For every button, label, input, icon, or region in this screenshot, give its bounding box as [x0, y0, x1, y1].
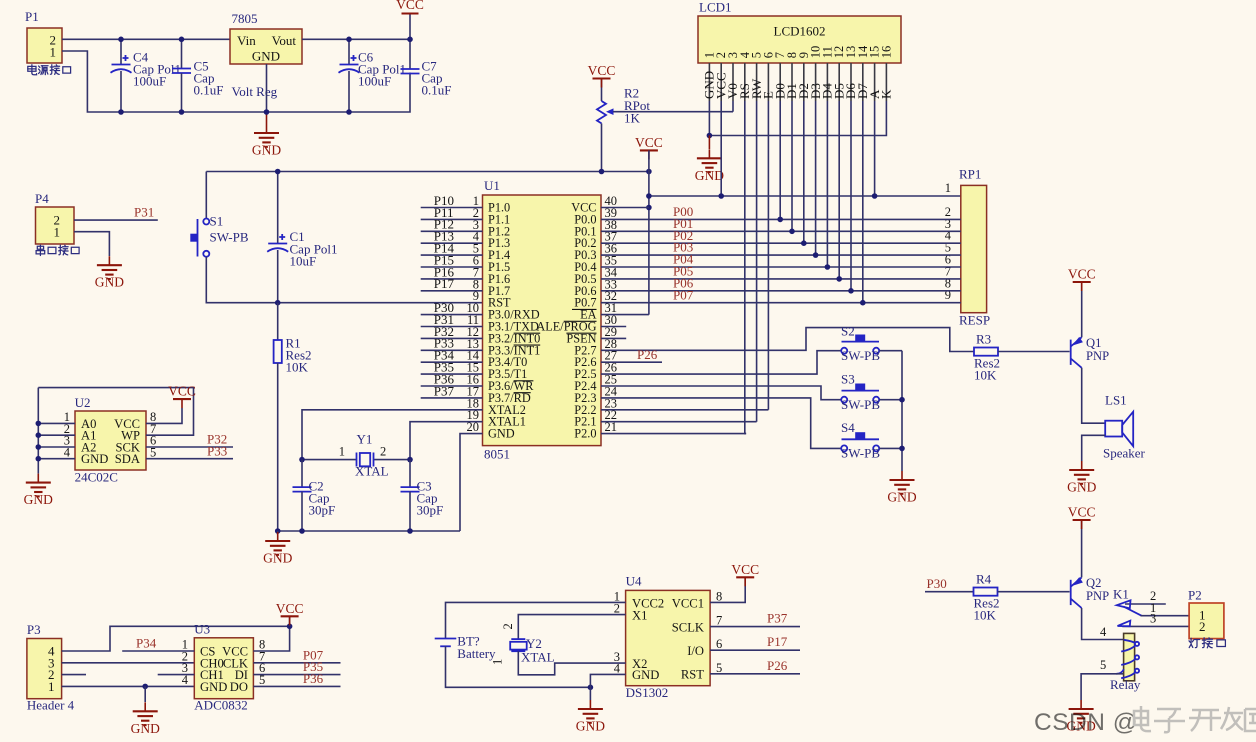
svg-text:10K: 10K — [974, 608, 997, 623]
connector P2 灯接口 — [1188, 588, 1224, 639]
MCU U1 8051 — [483, 178, 602, 462]
watermark CSDN — [1034, 706, 1256, 736]
ground under 7805 — [266, 112, 268, 124]
svg-text:SW-PB: SW-PB — [841, 397, 880, 412]
svg-text:RST: RST — [681, 668, 704, 682]
wire LCD GND pin1 and K pin16 — [709, 101, 886, 136]
wire P3 pin2 stub — [62, 674, 86, 676]
svg-text:2: 2 — [380, 445, 386, 459]
junction — [346, 109, 352, 115]
junction — [899, 397, 905, 403]
svg-text:7: 7 — [716, 614, 722, 628]
wire P4 pin1 to ground — [74, 232, 109, 256]
ground under P3 wire — [144, 686, 146, 702]
U1 right pin names — [536, 201, 596, 441]
P1 label 电源接口 (hand-drawn CJK) — [28, 65, 71, 75]
capacitor C7 — [401, 39, 452, 97]
junction — [899, 446, 905, 452]
svg-text:16: 16 — [879, 46, 893, 59]
junction — [789, 229, 795, 235]
wire LCD E pin6 to U1 P2.2 — [767, 101, 769, 410]
svg-text:0.1uF: 0.1uF — [194, 83, 224, 98]
ground under crystal rail — [277, 531, 279, 535]
svg-text:GND: GND — [632, 668, 659, 682]
wire S1 branch left — [205, 172, 207, 219]
junction — [264, 109, 270, 115]
svg-text:RP1: RP1 — [959, 167, 981, 182]
capacitor C5 — [172, 39, 223, 112]
ground under speaker — [1067, 461, 1096, 495]
svg-text:Y1: Y1 — [357, 432, 373, 447]
wire S4 right to bus — [879, 447, 902, 449]
svg-text:Relay: Relay — [1110, 677, 1141, 692]
RTC U4 DS1302 — [626, 574, 711, 700]
svg-text:30pF: 30pF — [417, 503, 444, 518]
wire LCD V0 pin3 to R2 — [732, 101, 734, 112]
power VCC above R2 — [588, 63, 616, 88]
resistor R4 Res2 — [974, 572, 1000, 623]
svg-text:10uF: 10uF — [290, 254, 317, 269]
crystal Y1 XTAL — [302, 432, 410, 479]
relay coil K1 — [1100, 625, 1141, 692]
svg-text:P2.0: P2.0 — [574, 427, 596, 441]
ground under P4 — [95, 256, 124, 290]
junction — [588, 685, 594, 691]
capacitor C2 — [293, 460, 336, 531]
junction — [36, 456, 42, 462]
U1 right pin numbers — [605, 194, 618, 434]
svg-text:Volt Reg: Volt Reg — [232, 84, 278, 99]
wire S1 bottom to RST rail — [206, 257, 482, 303]
wire Q1 collector to speaker — [1082, 368, 1106, 423]
svg-text:SW-PB: SW-PB — [841, 446, 880, 461]
wire switch bus down — [901, 351, 903, 471]
wire top rail y171.5 — [206, 171, 649, 173]
junction rail to VCC stem — [646, 169, 652, 175]
svg-text:CSDN @: CSDN @ — [1034, 709, 1138, 736]
resistor R3 Res2 — [974, 332, 1000, 383]
svg-text:P36: P36 — [303, 671, 324, 686]
svg-text:Vout: Vout — [272, 33, 297, 48]
junction dots data bus diagonal — [777, 217, 783, 223]
wire 7805 Vout — [302, 38, 410, 40]
svg-text:K: K — [879, 89, 894, 99]
svg-text:VCC: VCC — [396, 0, 424, 12]
U1 left pin names — [488, 201, 540, 441]
svg-text:DS1302: DS1302 — [626, 685, 669, 700]
junction — [407, 37, 413, 43]
wire R4 to Q2 base — [998, 591, 1070, 593]
svg-text:Header 4: Header 4 — [27, 698, 75, 713]
svg-text:1: 1 — [54, 224, 61, 239]
capacitor C3 — [401, 460, 444, 531]
svg-text:5: 5 — [716, 661, 722, 675]
svg-text:30pF: 30pF — [309, 503, 336, 518]
switch S2 SW-PB — [841, 324, 880, 363]
connector P1 电源接口 — [25, 9, 62, 63]
ground under U4 — [589, 687, 591, 700]
junction — [646, 205, 652, 211]
wire U1 P2.4 pin25 to S3 — [601, 386, 841, 400]
wire LCD RW pin5 to U1 P2.1 — [756, 101, 758, 422]
ground under relay — [1066, 700, 1095, 734]
svg-text:2: 2 — [501, 623, 515, 629]
connector P4 串口接口 — [35, 191, 74, 244]
RP1 pin numbers — [945, 181, 952, 302]
svg-text:1: 1 — [945, 181, 951, 195]
U1 left pin numbers — [467, 194, 480, 434]
svg-text:Vin: Vin — [237, 33, 256, 48]
svg-text:VCC1: VCC1 — [672, 596, 704, 610]
ground under U2 bus — [24, 474, 53, 508]
wire U2 SDA net P33 — [146, 458, 233, 460]
capacitor C6 — [339, 39, 407, 112]
svg-text:5: 5 — [1100, 658, 1106, 672]
svg-text:Battery: Battery — [457, 646, 496, 661]
svg-text:1: 1 — [50, 45, 57, 60]
junction — [299, 528, 305, 534]
svg-text:P26: P26 — [637, 347, 658, 362]
junction — [407, 528, 413, 534]
transistor Q2 PNP — [1071, 576, 1109, 608]
junction — [813, 252, 819, 258]
svg-text:100uF: 100uF — [133, 74, 166, 89]
P2 label 灯接口 (hand-drawn CJK) — [1189, 638, 1225, 648]
junction — [825, 264, 831, 270]
junction — [872, 193, 878, 199]
svg-text:SCLK: SCLK — [672, 620, 704, 634]
wire U4 GND pin4 — [590, 674, 625, 687]
wire U3 CH1 stub — [158, 674, 195, 676]
EEPROM U2 24C02C — [75, 395, 146, 485]
svg-text:3: 3 — [1150, 612, 1156, 626]
wire speaker bottom to ground — [1082, 435, 1106, 461]
wire U1 P2.3 pin24 to S4 — [601, 398, 841, 449]
power VCC above U4 — [731, 562, 759, 587]
svg-text:XTAL: XTAL — [521, 650, 555, 665]
svg-text:10K: 10K — [974, 368, 997, 383]
potentiometer R2 RPot — [597, 79, 733, 172]
svg-text:1: 1 — [491, 659, 505, 665]
svg-text:P26: P26 — [767, 658, 788, 673]
svg-text:6: 6 — [716, 637, 722, 651]
junction — [836, 276, 842, 282]
wire P1 pin2 to 7805 Vin — [62, 38, 230, 40]
LCD pin stubs — [709, 63, 886, 101]
U4 pin numbers — [614, 589, 723, 675]
wire LCD RS pin4 to U1 P2.0 — [745, 101, 746, 434]
wire U3 CS net P34 — [122, 650, 194, 652]
svg-text:S2: S2 — [841, 324, 855, 339]
wire U4 SCLK net P37 — [710, 626, 800, 628]
svg-text:I/O: I/O — [687, 644, 704, 658]
svg-text:DO: DO — [230, 680, 248, 694]
wire P3 pin4 to VCC rail — [62, 626, 290, 651]
speaker LS1 — [1103, 393, 1146, 461]
ground under switch bus — [887, 471, 916, 505]
junction — [718, 193, 724, 199]
svg-text:Q2: Q2 — [1086, 576, 1101, 590]
U1 left net labels — [434, 193, 455, 398]
wire crystal ground rail y531 — [278, 530, 460, 532]
relay K1 contact pin3 — [1118, 612, 1190, 627]
svg-text:10K: 10K — [286, 360, 309, 375]
wire Y2 bottom to U4 X2 — [518, 651, 625, 675]
wire P00..P07 rows U1 to RP1 — [601, 219, 961, 302]
wire U3 DI net P35 — [253, 674, 340, 676]
wire U1 P2.7 pin28 to R3 — [601, 328, 974, 352]
resistor R1 Res2 — [274, 303, 312, 531]
battery BT? — [435, 634, 496, 662]
svg-text:PNP: PNP — [1086, 349, 1109, 363]
wire XTAL2 row18 — [302, 410, 483, 460]
wire U2 SCK net P32 — [146, 446, 233, 448]
svg-text:ADC0832: ADC0832 — [194, 698, 247, 713]
svg-text:GND: GND — [81, 452, 108, 466]
wire 7805 GND pin — [266, 64, 268, 112]
wire U2 WP loop to top — [38, 388, 193, 436]
wire U3 VCC pin8 — [253, 626, 289, 651]
relay K1 contact pin2 — [1113, 587, 1166, 609]
wire U1 EA pin31 — [601, 314, 649, 316]
junction — [801, 240, 807, 246]
wire U1 P2.6 pin27 net P26 — [601, 361, 662, 363]
wire U3 CLK net P07 — [253, 662, 340, 664]
wire P3 pin1 to U3 GND — [62, 685, 195, 687]
junction — [118, 109, 124, 115]
svg-text:XTAL: XTAL — [355, 464, 389, 479]
power VCC top — [409, 14, 411, 40]
U2 pin numbers — [64, 410, 157, 459]
svg-text:LCD1: LCD1 — [699, 0, 732, 15]
svg-text:P1: P1 — [25, 9, 39, 24]
wire VCC stem / EA vertical — [648, 150, 650, 314]
wire U1 P2.0 pin21 — [601, 433, 746, 435]
U3 pin numbers — [182, 638, 266, 687]
svg-text:PNP: PNP — [1086, 589, 1109, 603]
U1 pin name overlines — [514, 309, 597, 392]
power VCC above Q1 — [1068, 267, 1096, 292]
regulator 7805 — [230, 11, 302, 99]
wire U1 VCC pin40 — [601, 207, 649, 209]
wire XTAL1 row19 — [410, 422, 483, 460]
wire U2 VCC pin8 — [146, 408, 182, 423]
svg-text:U4: U4 — [626, 574, 642, 589]
wire U4 RST net P26 — [710, 673, 800, 675]
svg-text:1K: 1K — [624, 111, 641, 126]
svg-text:100uF: 100uF — [358, 74, 391, 89]
net labels P00..P07 — [673, 204, 694, 302]
wire VCC rail y196 to RP1 — [649, 195, 961, 197]
svg-text:0.1uF: 0.1uF — [422, 83, 452, 98]
ADC U3 ADC0832 — [194, 622, 253, 713]
wire U1 P2.2 pin23 — [601, 409, 768, 411]
wire P3 pin3 to U3 CH0 — [62, 662, 195, 664]
svg-text:8: 8 — [716, 589, 722, 603]
wire relay coil pin5 to ground — [1081, 674, 1124, 700]
resistor pack RP1 RESP — [959, 167, 990, 328]
wire U1 ALE pin30 stub — [601, 326, 626, 328]
svg-text:P34: P34 — [136, 636, 157, 651]
wire P4 pin2 net P31 — [74, 219, 158, 221]
wire Q2 emitter to VCC — [1081, 520, 1083, 577]
svg-text:1: 1 — [339, 445, 345, 459]
crystal Y2 XTAL — [491, 623, 555, 665]
junction — [287, 624, 293, 630]
capacitor C1 — [267, 172, 337, 303]
junction — [346, 37, 352, 43]
power VCC main rail — [635, 135, 663, 160]
P4 label 串口接口 (hand-drawn CJK) — [36, 245, 79, 255]
junction — [860, 300, 866, 306]
svg-text:U2: U2 — [75, 395, 91, 410]
ground under LCD — [708, 136, 710, 150]
svg-text:P07: P07 — [673, 287, 694, 302]
junction dots power rails — [118, 37, 124, 43]
svg-text:LCD1602: LCD1602 — [774, 24, 826, 39]
svg-text:S3: S3 — [841, 372, 855, 387]
wire U1 P2.1 pin22 — [601, 421, 757, 423]
svg-text:P3: P3 — [27, 622, 41, 637]
svg-text:RESP: RESP — [959, 313, 990, 328]
junction — [407, 457, 413, 463]
svg-text:Speaker: Speaker — [1103, 446, 1146, 461]
wire U1 P2.5 pin26 to S2 — [601, 351, 841, 374]
power VCC above Q2 — [1068, 505, 1096, 530]
switch S4 SW-PB — [841, 420, 880, 461]
svg-text:P30: P30 — [927, 576, 947, 591]
svg-text:7805: 7805 — [232, 11, 258, 26]
junction — [36, 432, 42, 438]
relay K1 contact pin1 wire — [1141, 615, 1190, 617]
junction — [142, 684, 148, 690]
svg-text:LS1: LS1 — [1105, 393, 1127, 408]
junction — [179, 109, 185, 115]
svg-text:R4: R4 — [976, 572, 992, 587]
svg-text:P31: P31 — [134, 205, 154, 220]
svg-text:P17: P17 — [767, 634, 788, 649]
junction C1 top — [275, 169, 281, 175]
connector P3 Header 4 — [27, 622, 75, 713]
svg-text:Q1: Q1 — [1086, 336, 1101, 350]
wire U4 X1 pin2 to crystal — [518, 615, 625, 640]
svg-text:R3: R3 — [976, 332, 991, 347]
junction — [646, 193, 652, 199]
svg-text:SDA: SDA — [115, 452, 140, 466]
wire R3 to Q1 base — [998, 351, 1070, 353]
junction — [275, 528, 281, 534]
svg-text:SW-PB: SW-PB — [841, 348, 880, 363]
wire Q2 collector to relay coil pin4 — [1082, 608, 1124, 640]
svg-text:X1: X1 — [632, 609, 647, 623]
junction R2 bottom — [599, 169, 605, 175]
wire U3 DO net P36 — [253, 685, 340, 687]
LCD LCD1 LCD1602 — [698, 0, 901, 63]
svg-text:1: 1 — [48, 679, 55, 694]
LCD pin names rotated — [702, 71, 894, 99]
wire U1 PSEN pin29 stub — [601, 337, 626, 339]
svg-text:8051: 8051 — [484, 447, 510, 462]
svg-text:24C02C: 24C02C — [75, 470, 118, 485]
junction — [179, 37, 185, 43]
transistor Q1 PNP — [1071, 336, 1109, 368]
junction — [36, 421, 42, 427]
wire U4 VCC2 pin1 to battery — [446, 602, 626, 638]
svg-text:S1: S1 — [210, 214, 224, 229]
power VCC above U3 — [289, 616, 291, 626]
LCD pin numbers rotated — [702, 45, 893, 58]
U1 P1 port wires — [421, 208, 483, 398]
wire LCD A pin15 — [874, 101, 876, 196]
svg-text:2: 2 — [614, 602, 620, 616]
svg-text:U3: U3 — [194, 622, 210, 637]
svg-text:GND: GND — [252, 49, 280, 64]
svg-text:P37: P37 — [767, 611, 788, 626]
svg-text:GND: GND — [200, 680, 227, 694]
svg-text:S4: S4 — [841, 420, 855, 435]
power VCC above U2 — [168, 384, 196, 409]
junction — [848, 288, 854, 294]
capacitor C4 — [111, 39, 182, 112]
switch S3 SW-PB — [841, 372, 880, 412]
junction — [707, 133, 713, 139]
wire U4 I/O net P17 — [710, 649, 800, 651]
svg-text:P37: P37 — [434, 383, 455, 398]
svg-text:U1: U1 — [484, 178, 500, 193]
wire LCD VCC pin2 — [720, 101, 722, 196]
wire S2 right to bus — [879, 350, 902, 352]
wire S3 right to bus — [879, 399, 902, 401]
wire LCD D0..D7 columns — [780, 101, 863, 303]
wire Q1 emitter to VCC — [1081, 282, 1083, 337]
wire P1 pin1 down to bottom rail — [62, 51, 410, 112]
svg-text:P17: P17 — [434, 276, 455, 291]
wire U2 address bus left — [38, 422, 75, 424]
svg-text:P33: P33 — [207, 443, 227, 458]
junction — [299, 457, 305, 463]
svg-text:4: 4 — [1100, 625, 1107, 639]
wire GND row20 — [460, 434, 483, 531]
svg-text:GND: GND — [488, 427, 515, 441]
junction — [36, 444, 42, 450]
junction C1 bottom — [275, 300, 281, 306]
svg-text:2: 2 — [1199, 619, 1206, 634]
switch S1 SW-PB — [190, 214, 249, 257]
svg-text:K1: K1 — [1113, 587, 1129, 602]
svg-text:P2: P2 — [1188, 588, 1202, 603]
svg-text:P4: P4 — [35, 191, 49, 206]
wire battery bottom rail — [446, 646, 591, 687]
wire P30 to R4 — [925, 591, 974, 593]
wire U4 VCC1 pin8 — [710, 577, 745, 602]
svg-text:SW-PB: SW-PB — [210, 230, 249, 245]
relay K1 arm to pin1 — [1123, 607, 1141, 616]
